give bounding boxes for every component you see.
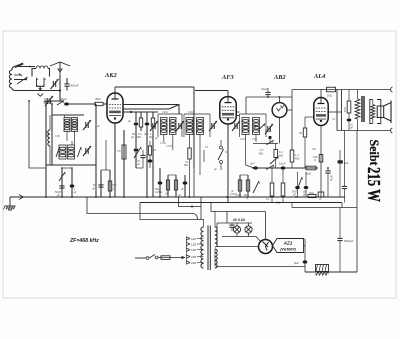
wire screen rail — [292, 203, 357, 208]
capacitor C10b — [134, 131, 143, 168]
svg-text:10000: 10000 — [230, 193, 237, 196]
wire — [67, 132, 75, 146]
trimmer capacitors C16 C17 — [176, 121, 217, 131]
svg-text:240: 240 — [191, 261, 196, 265]
wire B+ from rectifier — [304, 239, 306, 273]
transformer core — [362, 96, 364, 122]
tube AZ1 rectifier — [259, 240, 273, 254]
svg-text:MΩ: MΩ — [149, 135, 153, 139]
ground — [4, 197, 16, 210]
junction — [226, 196, 228, 198]
label tag AZ1 (VG5007) — [273, 239, 304, 253]
svg-text:1kΩ: 1kΩ — [343, 107, 347, 112]
wire AL4 top cap — [292, 90, 337, 98]
resistor R10 — [236, 175, 242, 197]
wire top cap AK2 — [115, 87, 194, 93]
svg-text:0.5MΩ: 0.5MΩ — [253, 122, 257, 130]
oscillator coil L4 — [64, 118, 78, 132]
svg-text:MΩ: MΩ — [279, 154, 283, 158]
capacitor C20 10uF — [261, 87, 271, 97]
trimmer capacitor C1 — [51, 79, 59, 89]
svg-text:AB2: AB2 — [273, 74, 287, 81]
capacitor C10 — [131, 112, 138, 139]
label coil — [55, 134, 61, 138]
tube AK2 — [107, 93, 123, 123]
junction — [189, 196, 191, 198]
mains switch S4 — [135, 255, 158, 260]
svg-text:MΩ: MΩ — [259, 152, 263, 156]
svg-text:220: 220 — [191, 255, 196, 259]
resistor R15 — [266, 168, 274, 203]
svg-text:µF: µF — [137, 163, 140, 166]
trimmer arrow C13 — [134, 147, 142, 158]
tone network — [253, 122, 272, 143]
svg-text:MΩ: MΩ — [184, 163, 188, 167]
wire lamp series — [222, 233, 261, 241]
tube AL4 label — [313, 73, 325, 80]
capacitor C7 5000pF — [55, 168, 66, 197]
wire — [246, 135, 255, 169]
capacitor C25b — [325, 167, 333, 197]
svg-text:0.30: 0.30 — [252, 138, 257, 141]
svg-text:MΩ: MΩ — [295, 157, 299, 161]
tube AL4 — [314, 98, 328, 126]
svg-text:110: 110 — [191, 237, 196, 241]
junction — [123, 196, 125, 198]
wire — [95, 168, 97, 197]
wire oscillator frame — [52, 104, 96, 168]
label T1 windings — [160, 142, 173, 148]
resistor R3 — [137, 112, 143, 139]
IF transformer T3 windings — [242, 118, 260, 135]
output transformer primary — [355, 90, 360, 131]
resistor R1 40ohm grid stopper — [95, 97, 107, 106]
wire — [101, 140, 110, 170]
wire pickup terminal bottom — [337, 128, 393, 133]
wire T3 frame — [240, 114, 267, 137]
wire screen feed vertical — [193, 87, 195, 168]
loudspeaker LS1 — [370, 100, 391, 124]
wire screen diagonal — [123, 105, 179, 110]
power transformer T4 secondary — [215, 227, 217, 268]
svg-text:40Ω: 40Ω — [95, 97, 101, 101]
wire T2 frame — [184, 114, 210, 137]
resistor R17 50ohm — [327, 87, 336, 97]
wire — [59, 89, 61, 101]
power transformer T4 primary — [201, 219, 204, 268]
svg-text:Ω: Ω — [320, 198, 322, 201]
capacitor C11 — [144, 112, 149, 197]
svg-text:Seibt: Seibt — [367, 140, 382, 167]
svg-text:AF3: AF3 — [221, 74, 235, 81]
svg-text:MΩ: MΩ — [137, 135, 141, 139]
trimmer arrow — [253, 181, 260, 193]
antenna symbol — [50, 62, 70, 91]
svg-text:0.80: 0.80 — [55, 134, 61, 138]
wire AL4 anode — [328, 111, 341, 113]
svg-text:0.302: 0.302 — [162, 112, 168, 114]
svg-text:125: 125 — [191, 242, 196, 246]
junction — [95, 196, 97, 198]
resistor R2 700ohm — [108, 170, 117, 197]
capacitor C28 8uF — [294, 260, 307, 265]
tube AF3 — [220, 97, 236, 124]
wire output inner — [341, 90, 343, 131]
svg-text:S: S — [225, 150, 227, 154]
svg-text:20Ω: 20Ω — [309, 192, 314, 195]
svg-text:µF: µF — [92, 187, 95, 191]
wire heater AZ1 — [215, 249, 305, 267]
resistor R13 1.1Mohm — [290, 150, 299, 168]
wire anode to T2 — [123, 105, 179, 115]
capacitor C15 — [181, 175, 187, 197]
junction — [146, 196, 148, 198]
svg-text:1kΩ: 1kΩ — [306, 172, 311, 176]
bus arrow marker — [19, 195, 24, 200]
wire — [193, 168, 195, 197]
resistor R20 + capacitor C26 — [343, 90, 353, 131]
capacitor C4 44uF — [60, 97, 69, 106]
wire ground bus — [10, 196, 345, 198]
wire — [46, 115, 96, 165]
svg-text:(VG5007): (VG5007) — [280, 248, 296, 252]
svg-text:44µF: 44µF — [60, 97, 67, 101]
wire lamps — [217, 212, 252, 247]
junction — [320, 196, 322, 198]
capacitor C2 300pF — [64, 78, 78, 91]
capacitor C9 50uF — [92, 170, 104, 197]
svg-text:100: 100 — [312, 148, 317, 151]
capacitor C27 — [342, 131, 347, 203]
junction — [45, 196, 47, 198]
resistor R8 — [165, 175, 178, 197]
label — [230, 190, 237, 196]
wire junction hook — [179, 197, 202, 220]
capacitor C10c — [137, 150, 146, 168]
label ZF=468 kHz — [69, 238, 99, 244]
svg-text:300µF: 300µF — [70, 84, 79, 88]
svg-text:µF: µF — [350, 127, 353, 130]
svg-text:AK2: AK2 — [104, 72, 118, 79]
resistor R14 — [306, 166, 316, 175]
padder coils L5 — [59, 145, 75, 159]
labels misc — [97, 112, 336, 200]
tube AF3 label — [221, 74, 235, 81]
resistor R5 0.5Mohm — [117, 130, 126, 197]
svg-text:0.310: 0.310 — [166, 145, 173, 148]
trimmer arrow — [297, 177, 303, 190]
wire — [61, 167, 73, 169]
junction — [271, 196, 273, 198]
wire pickup terminal top — [337, 87, 393, 92]
svg-text:µF: µF — [303, 194, 306, 197]
wire AF line — [252, 167, 318, 169]
svg-text:µF: µF — [330, 179, 333, 182]
wire cathode AK2 — [114, 123, 116, 197]
fuse F1 — [158, 256, 186, 260]
wire — [199, 135, 201, 176]
input coil L2 — [32, 66, 50, 77]
svg-text:0.2: 0.2 — [266, 198, 270, 201]
svg-text:40: 40 — [299, 131, 303, 135]
resistor R7 — [166, 175, 169, 197]
wire T3 top feed — [245, 97, 247, 114]
svg-text:ZF=468 kHz: ZF=468 kHz — [69, 238, 99, 244]
svg-text:4V 0.3A: 4V 0.3A — [232, 218, 246, 222]
trimmer capacitor C12 — [150, 121, 158, 131]
svg-text:50Ω: 50Ω — [327, 94, 332, 98]
capacitor C30 — [229, 223, 234, 231]
capacitor C23 — [292, 172, 300, 197]
junction — [109, 196, 111, 198]
wire grid line — [44, 101, 96, 104]
svg-text:0.5: 0.5 — [117, 149, 121, 153]
capacitor C8 — [70, 168, 77, 197]
trimmer capacitors C5 C6 — [83, 120, 91, 156]
wire AB2 cathode — [279, 117, 281, 143]
tube AB2 label — [273, 74, 287, 81]
svg-text:pF: pF — [57, 193, 60, 197]
resistor R18 cathode 40 — [299, 117, 314, 168]
svg-text:150: 150 — [191, 248, 196, 252]
svg-text:2kµF: 2kµF — [265, 129, 272, 133]
junction — [61, 196, 63, 198]
wire anode AF3 — [236, 112, 239, 116]
wire — [255, 135, 257, 143]
oscillator coil L3 — [46, 115, 51, 165]
svg-text:Ω: Ω — [112, 187, 114, 191]
svg-text:10µF: 10µF — [279, 162, 286, 166]
capacitor C29 — [337, 208, 353, 273]
wave band switch S1 — [14, 66, 31, 84]
tube AB2 — [272, 103, 287, 118]
wire heater bus — [140, 203, 342, 208]
svg-text:0.2MΩ: 0.2MΩ — [155, 191, 163, 194]
junction — [159, 196, 161, 198]
coil core adjusters — [37, 78, 47, 97]
svg-text:215 W: 215 W — [364, 167, 384, 202]
wire bottom rail — [305, 271, 357, 273]
resistor R21 field choke — [316, 265, 329, 276]
wire output left — [336, 90, 338, 131]
svg-text:2nF: 2nF — [250, 162, 255, 166]
label C1 value — [43, 97, 53, 105]
resistor R6 70 — [148, 141, 157, 168]
wire cathode AF3 — [227, 124, 229, 203]
svg-text:AZ1: AZ1 — [283, 241, 293, 246]
svg-text:0.30: 0.30 — [240, 138, 245, 141]
wire to lower — [87, 197, 198, 220]
antenna coil L1 — [9, 67, 15, 91]
tube AK2 label — [104, 72, 118, 79]
pilot lamps — [233, 226, 252, 233]
wire AVC line — [45, 101, 47, 197]
trimmer capacitor C3 — [45, 96, 53, 106]
wire — [291, 90, 293, 151]
wire AVC branch — [28, 100, 46, 168]
capacitor C25 — [338, 150, 349, 197]
wire AB2 anode stub — [287, 109, 292, 111]
svg-text:µF: µF — [293, 194, 296, 197]
title text Seibt — [367, 140, 382, 167]
border frame — [3, 31, 396, 298]
capacitor C21 2nF — [250, 162, 258, 170]
wire to AZ1 — [216, 246, 259, 248]
wire to transformer top — [140, 203, 204, 220]
svg-text:10µF: 10µF — [261, 87, 268, 91]
IF transformer T2 windings — [186, 118, 204, 135]
wire B+ rail — [356, 131, 358, 273]
resistor R22 20ohm — [308, 192, 316, 198]
switch contact — [51, 101, 64, 106]
svg-text:0.80: 0.80 — [46, 131, 50, 137]
wire HT — [211, 203, 266, 240]
core bar — [15, 63, 24, 69]
junction — [295, 196, 297, 198]
capacitor C22 — [279, 162, 286, 170]
wire arrow — [266, 165, 274, 170]
wire — [15, 67, 60, 91]
svg-text:8µF: 8µF — [294, 261, 299, 265]
wire T1 frame — [158, 114, 182, 150]
resistor R11 — [240, 175, 250, 197]
wire anode row — [123, 111, 158, 113]
resistor R19 100ohm — [313, 126, 324, 201]
trimmer capacitors C18 C19 — [232, 121, 273, 134]
svg-text:AL4: AL4 — [313, 73, 325, 80]
potentiometer R12 volume — [253, 140, 283, 168]
capacitor C14 — [155, 168, 163, 197]
resistor R9 0.1Mohm — [184, 135, 191, 198]
svg-text:500kµF: 500kµF — [344, 239, 354, 243]
wire top cap AF3 — [195, 91, 228, 97]
svg-text:0.310: 0.310 — [188, 112, 194, 114]
svg-text:µF: µF — [131, 135, 134, 139]
resistor R16 — [276, 168, 285, 205]
label pilot lamps — [232, 218, 246, 222]
label R12 — [259, 148, 264, 156]
capacitor C24 — [303, 172, 309, 197]
wire — [203, 150, 205, 162]
IF transformer T1 windings — [161, 118, 177, 135]
title text 215 W — [364, 167, 384, 202]
switch S3 — [218, 140, 227, 170]
junction — [71, 196, 73, 198]
wire AB2 top — [246, 96, 292, 102]
transformer core T4 — [208, 226, 210, 271]
resistor R4 — [149, 112, 155, 197]
svg-text:Ω: Ω — [314, 158, 316, 162]
switch contacts S2 — [56, 147, 82, 157]
mains taps — [186, 237, 204, 265]
svg-text:µF: µF — [74, 190, 77, 194]
svg-text:700: 700 — [112, 183, 117, 187]
svg-text:MΩ: MΩ — [276, 202, 280, 205]
